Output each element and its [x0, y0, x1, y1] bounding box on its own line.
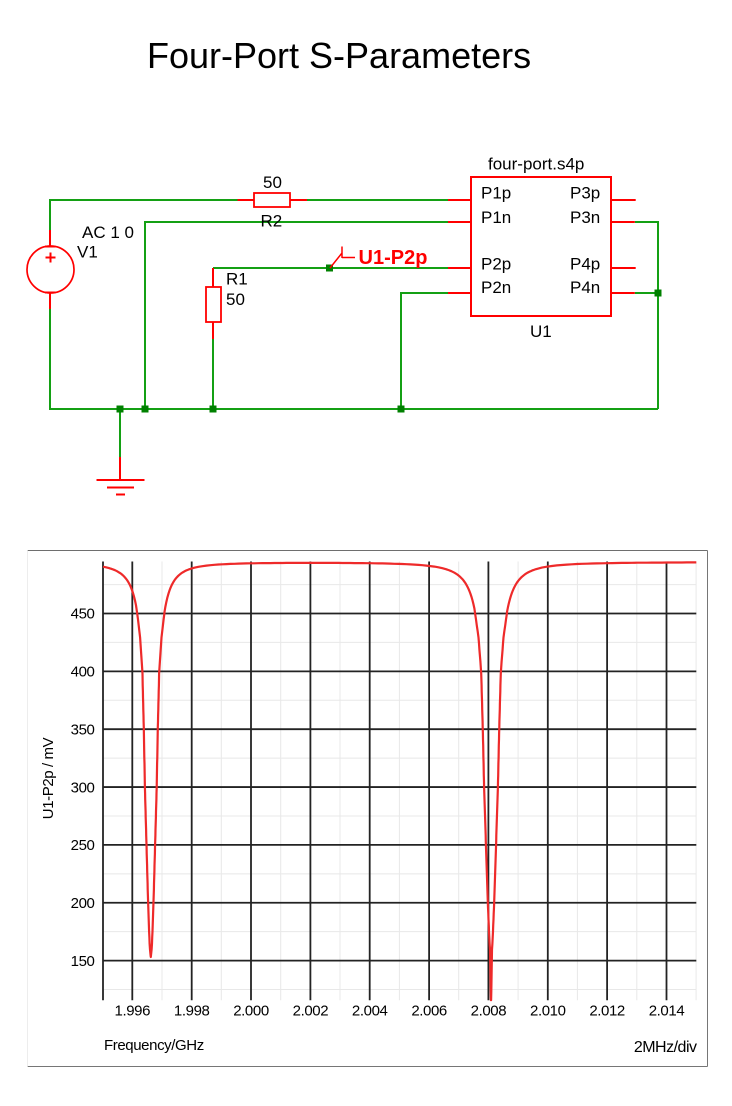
- four-port U1 box: [471, 177, 611, 316]
- svg-text:P2p: P2p: [481, 255, 511, 274]
- svg-text:U1-P2p / mV: U1-P2p / mV: [40, 737, 57, 819]
- svg-text:2MHz/div: 2MHz/div: [634, 1039, 697, 1056]
- y axis line: [102, 562, 104, 1001]
- svg-text:50: 50: [263, 173, 282, 192]
- svg-text:2.008: 2.008: [471, 1003, 507, 1020]
- x axis tick labels: [115, 1003, 685, 1020]
- ground: [97, 457, 145, 495]
- svg-text:2.014: 2.014: [649, 1003, 685, 1020]
- svg-text:300: 300: [71, 779, 95, 796]
- plot frame: [28, 551, 708, 1067]
- svg-text:350: 350: [71, 721, 95, 738]
- minor gridlines: [103, 562, 696, 1001]
- junction V1 bus: [117, 406, 124, 413]
- svg-text:Frequency/GHz: Frequency/GHz: [104, 1037, 204, 1054]
- node label flag U1-P2p: [330, 247, 355, 269]
- junction P2n bus: [398, 406, 405, 413]
- svg-text:P1p: P1p: [481, 184, 511, 203]
- svg-text:P4p: P4p: [570, 255, 600, 274]
- svg-text:AC 1 0: AC 1 0: [82, 223, 134, 242]
- svg-text:1.998: 1.998: [174, 1003, 210, 1020]
- curve U1-P2p: [103, 562, 696, 1000]
- svg-text:150: 150: [71, 953, 95, 970]
- junction U1-P2p node: [326, 265, 333, 272]
- wire net P3n right vertical: [635, 222, 658, 409]
- wire top net P1p: [50, 200, 448, 246]
- svg-text:2.012: 2.012: [589, 1003, 625, 1020]
- svg-text:2.006: 2.006: [411, 1003, 447, 1020]
- wire net P4n: [635, 292, 658, 294]
- svg-text:P3n: P3n: [570, 208, 600, 227]
- svg-text:R2: R2: [261, 212, 283, 231]
- svg-text:2.002: 2.002: [293, 1003, 329, 1020]
- svg-text:450: 450: [71, 606, 95, 623]
- svg-text:P3p: P3p: [570, 184, 600, 203]
- svg-text:U1: U1: [530, 322, 552, 341]
- svg-text:200: 200: [71, 895, 95, 912]
- svg-text:50: 50: [226, 290, 245, 309]
- wire ground bus: [50, 309, 658, 457]
- svg-text:2.010: 2.010: [530, 1003, 566, 1020]
- major gridlines: [103, 562, 696, 1001]
- svg-text:1.996: 1.996: [115, 1003, 151, 1020]
- y axis tick labels: [71, 606, 95, 970]
- wire net U1-P2p: [213, 267, 448, 269]
- U1 pin leads right: [611, 200, 636, 293]
- svg-text:Four-Port S-Parameters: Four-Port S-Parameters: [147, 35, 531, 76]
- resistor R1: [206, 268, 221, 339]
- voltage source V1: [27, 230, 74, 309]
- svg-text:P2n: P2n: [481, 278, 511, 297]
- svg-text:R1: R1: [226, 270, 248, 289]
- junction R1 bus: [210, 406, 217, 413]
- wire net P2n: [401, 293, 448, 409]
- svg-text:U1-P2p: U1-P2p: [359, 247, 428, 269]
- junction P4n right: [655, 290, 662, 297]
- wire net P1n: [145, 222, 448, 409]
- svg-text:2.000: 2.000: [233, 1003, 269, 1020]
- svg-text:V1: V1: [77, 243, 98, 262]
- resistor R2: [238, 193, 308, 207]
- svg-text:2.004: 2.004: [352, 1003, 388, 1020]
- svg-text:250: 250: [71, 837, 95, 854]
- svg-text:400: 400: [71, 664, 95, 681]
- U1 pin leads left: [448, 200, 471, 293]
- svg-text:P4n: P4n: [570, 278, 600, 297]
- svg-text:four-port.s4p: four-port.s4p: [488, 155, 584, 174]
- svg-text:P1n: P1n: [481, 208, 511, 227]
- junction P1n bus: [142, 406, 149, 413]
